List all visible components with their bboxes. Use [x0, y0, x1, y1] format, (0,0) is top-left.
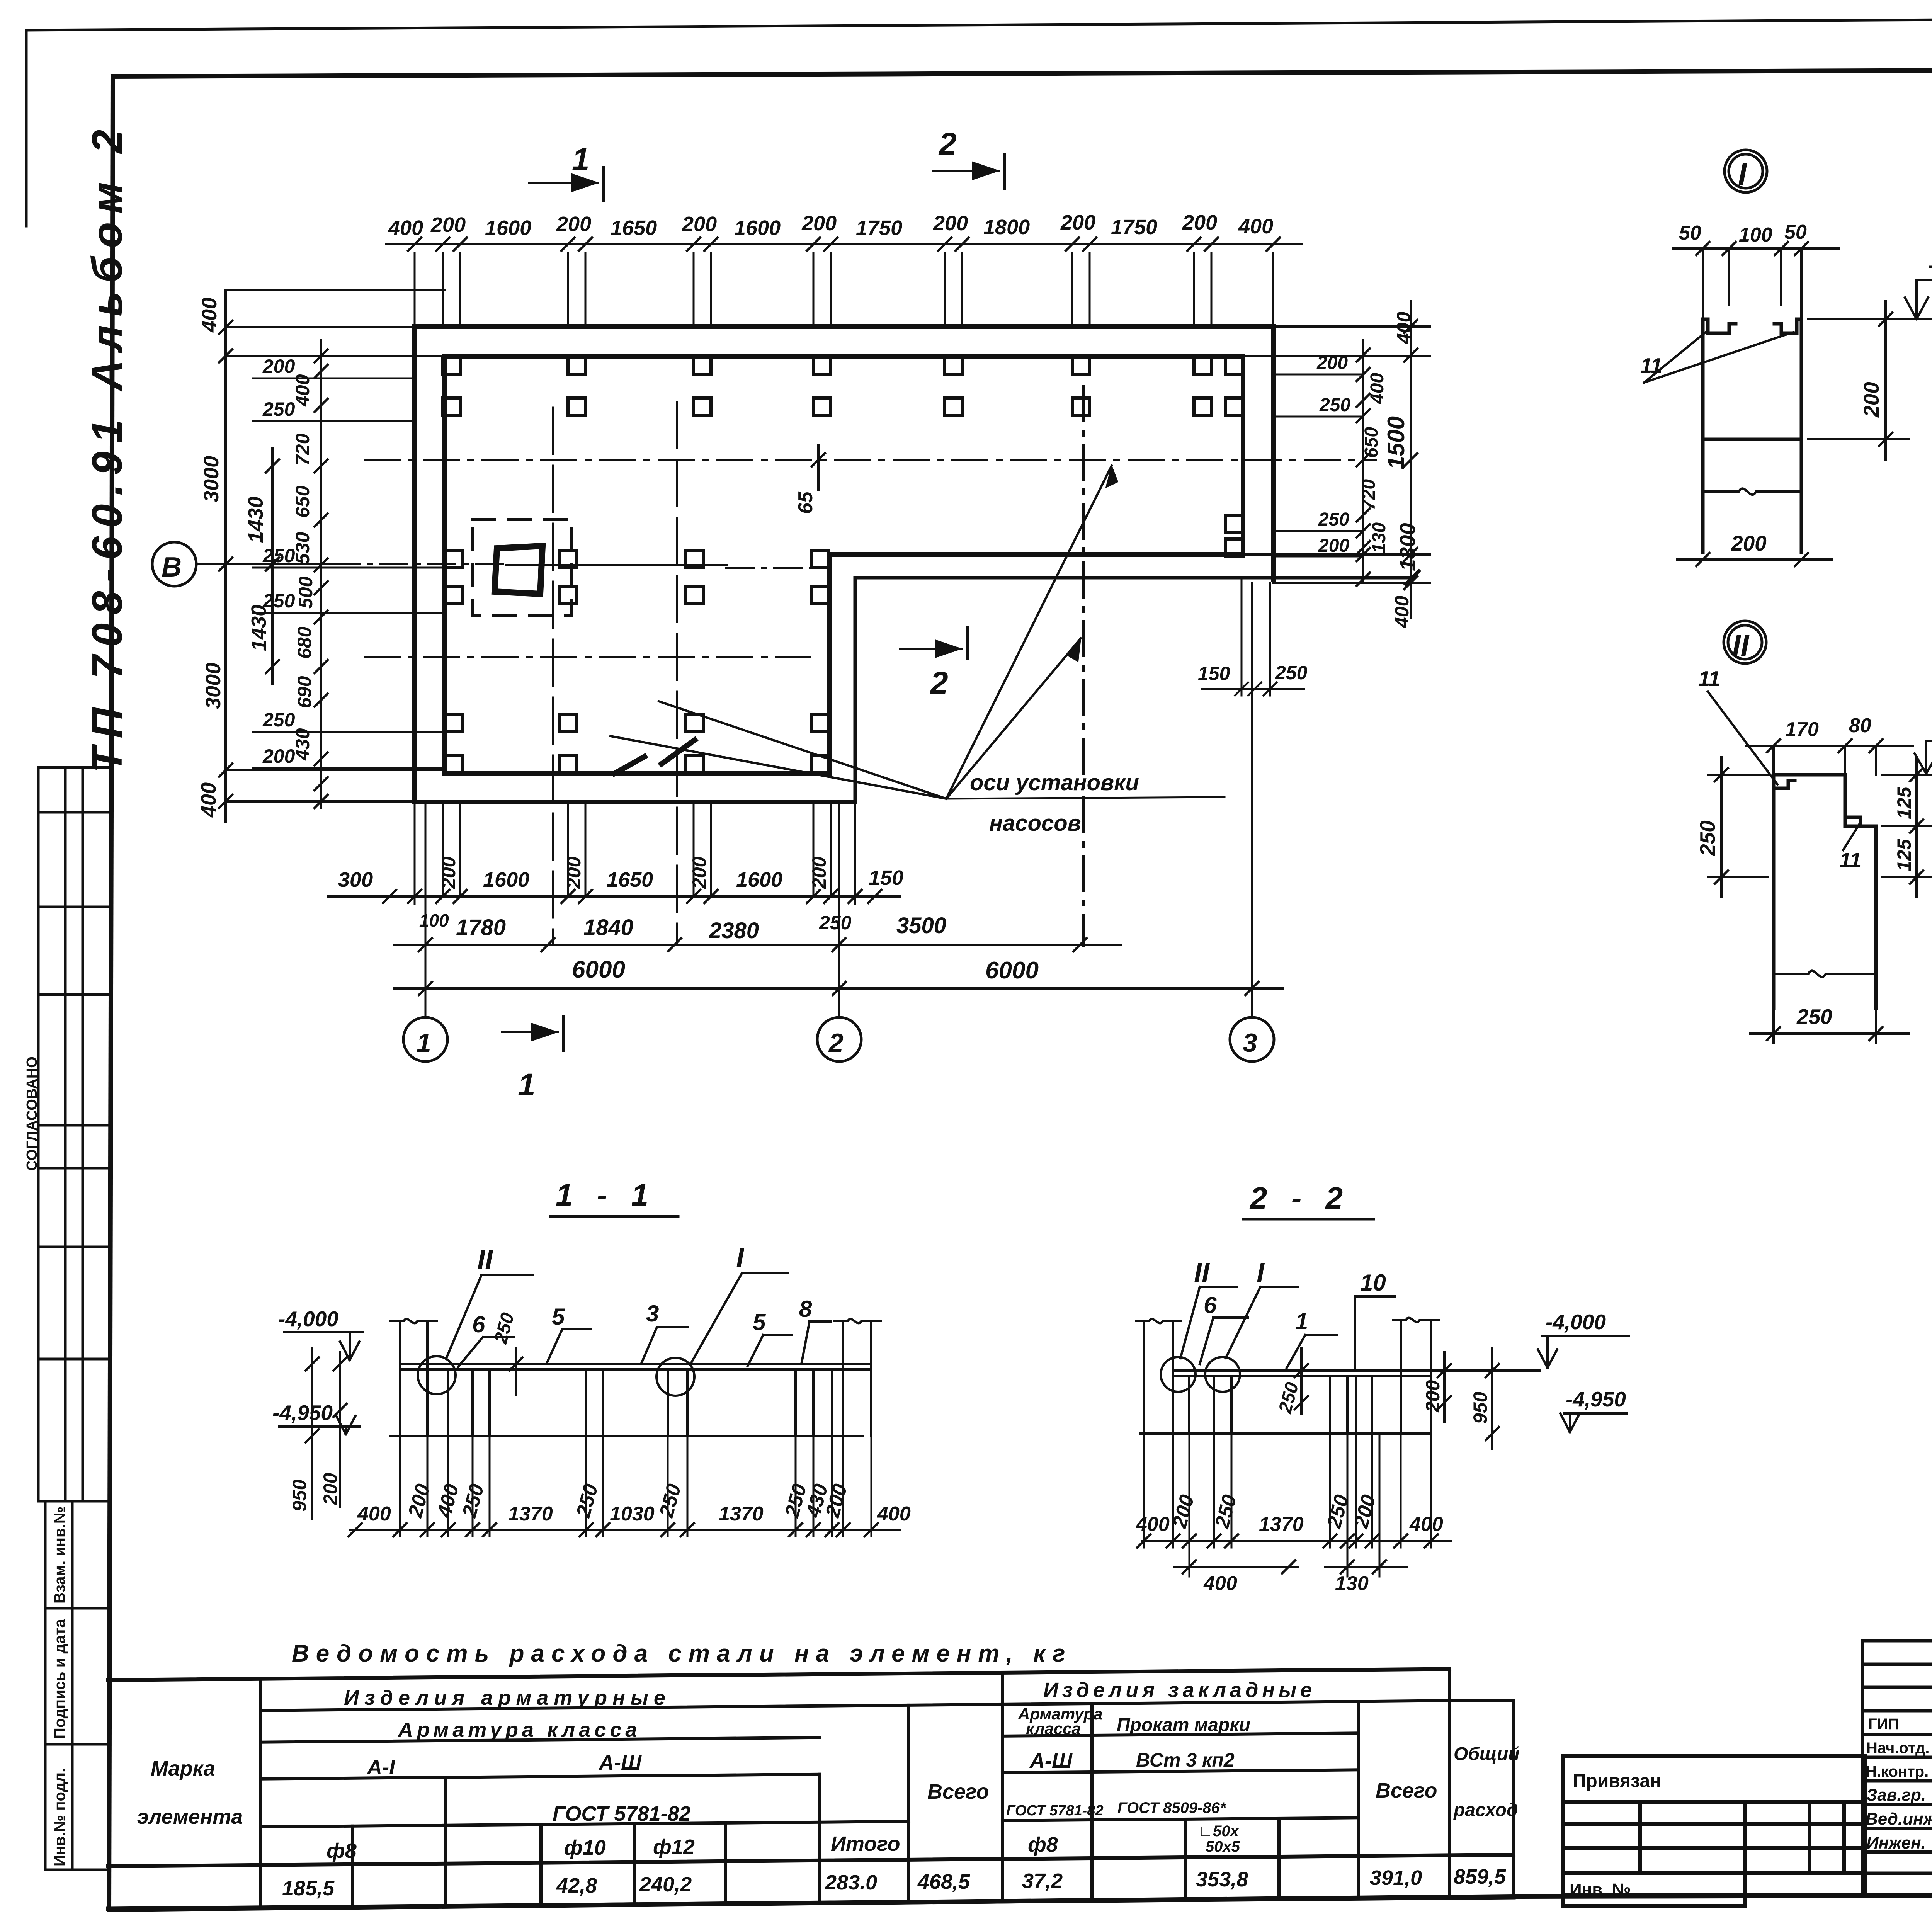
- svg-text:1 - 1: 1 - 1: [556, 1178, 656, 1212]
- svg-text:Нач.отд.: Нач.отд.: [1866, 1740, 1929, 1757]
- svg-text:250: 250: [572, 1481, 602, 1520]
- detail II leaders 11: [1708, 692, 1861, 850]
- right outer dim chain: [1243, 301, 1430, 618]
- column stubs top wall row1: [443, 357, 1243, 375]
- section marker 1 bottom: [502, 1016, 563, 1051]
- top dim witness lines: [415, 253, 1273, 327]
- svg-text:185,5: 185,5: [282, 1877, 335, 1900]
- svg-text:400: 400: [1367, 373, 1388, 404]
- svg-text:10: 10: [1360, 1270, 1386, 1296]
- svg-text:3000: 3000: [202, 663, 225, 709]
- pump axes baseline: [946, 797, 1225, 799]
- svg-text:ГОСТ 5781-82: ГОСТ 5781-82: [1006, 1803, 1104, 1819]
- top dim labels: [388, 211, 1273, 240]
- section 1-1 slab: [400, 1364, 871, 1369]
- pump axis vertical: [1082, 386, 1085, 946]
- grid axis circle 3: [1230, 1017, 1274, 1061]
- svg-text:1370: 1370: [508, 1503, 553, 1525]
- svg-text:200: 200: [262, 745, 295, 767]
- svg-text:50х5: 50х5: [1206, 1838, 1240, 1855]
- svg-text:400: 400: [1391, 595, 1413, 628]
- svg-text:250: 250: [655, 1481, 685, 1520]
- detail I right dim 200: [1808, 301, 1909, 460]
- svg-text:Взам. инв.№: Взам. инв.№: [51, 1507, 68, 1604]
- svg-text:200: 200: [682, 213, 717, 236]
- top dim ticks: [408, 238, 1280, 251]
- svg-text:Инв. №: Инв. №: [1570, 1880, 1631, 1899]
- svg-text:1: 1: [572, 142, 590, 177]
- pump axis horizontal 1: [365, 459, 1376, 461]
- svg-text:1030: 1030: [610, 1503, 655, 1525]
- svg-text:1650: 1650: [611, 216, 657, 240]
- svg-text:250: 250: [262, 590, 295, 612]
- svg-text:200: 200: [438, 856, 459, 889]
- svg-text:1300: 1300: [1395, 523, 1420, 571]
- column stubs left block middle rows: [446, 550, 828, 604]
- svg-text:200: 200: [1060, 211, 1095, 234]
- top dimension line: [386, 243, 1302, 245]
- svg-text:1600: 1600: [483, 868, 529, 891]
- svg-text:400: 400: [1393, 311, 1415, 344]
- signature table grid: [1862, 1641, 1932, 1895]
- svg-text:200: 200: [1731, 531, 1767, 555]
- svg-text:400: 400: [877, 1503, 911, 1525]
- pump axis horizontal 2: [365, 656, 810, 658]
- svg-text:I: I: [736, 1243, 745, 1274]
- section 1-1 left vertical dims: [306, 1349, 347, 1519]
- svg-text:Общий: Общий: [1454, 1744, 1520, 1764]
- section 1-1 leaders and labels: [446, 1273, 831, 1395]
- section 2-2 small dims: [1295, 1349, 1499, 1449]
- svg-text:391,0: 391,0: [1370, 1866, 1422, 1889]
- rotated 200 labels under plan: [438, 856, 830, 889]
- svg-text:1780: 1780: [456, 915, 506, 940]
- sheet outer edge top: [26, 15, 1932, 30]
- axis B circle: [152, 542, 196, 586]
- bottom dim line A: [328, 890, 900, 903]
- left 1430 dim chain: [266, 448, 279, 684]
- detail II level mark -4.000: [1893, 741, 1932, 775]
- svg-text:ф10: ф10: [564, 1836, 606, 1859]
- svg-text:Подпись и дата: Подпись и дата: [51, 1619, 68, 1739]
- svg-text:-4,000: -4,000: [278, 1307, 338, 1331]
- svg-text:Изделия арматурные: Изделия арматурные: [344, 1686, 671, 1709]
- svg-text:1500: 1500: [1383, 416, 1410, 469]
- svg-text:400: 400: [198, 298, 221, 333]
- svg-text:125: 125: [1893, 786, 1915, 819]
- svg-text:200: 200: [1350, 1492, 1380, 1531]
- svg-text:250: 250: [262, 398, 295, 420]
- section marker 2 top: [933, 155, 1005, 188]
- detail II circle marker: [1724, 621, 1766, 663]
- pump mark dashes: [662, 740, 695, 764]
- svg-text:Ведомость расхода стали: Ведомость расхода стали на элемент, кг: [292, 1640, 1072, 1667]
- svg-text:6: 6: [1204, 1292, 1217, 1318]
- svg-text:-4,950: -4,950: [1566, 1387, 1626, 1411]
- svg-text:1430: 1430: [244, 497, 267, 543]
- pump axes leader fan: [611, 466, 1118, 799]
- svg-text:250: 250: [1696, 820, 1719, 856]
- section 2-2 bottom dims: [1137, 1534, 1451, 1548]
- svg-text:11: 11: [1839, 848, 1861, 872]
- svg-text:400: 400: [357, 1503, 391, 1525]
- svg-text:42,8: 42,8: [556, 1874, 597, 1897]
- section 1-1 walls: [391, 1319, 881, 1436]
- svg-text:400: 400: [197, 782, 220, 818]
- svg-text:250: 250: [1318, 509, 1349, 530]
- svg-text:250: 250: [1323, 1492, 1353, 1531]
- section 2-2 floor line: [1140, 1432, 1431, 1435]
- svg-text:37,2: 37,2: [1022, 1869, 1063, 1893]
- svg-text:1750: 1750: [1111, 216, 1157, 239]
- svg-text:650: 650: [292, 485, 313, 518]
- svg-text:100: 100: [1739, 224, 1772, 246]
- svg-text:Инв.№ подл.: Инв.№ подл.: [51, 1768, 68, 1866]
- detail I leader 11: [1644, 330, 1793, 383]
- svg-text:200: 200: [689, 856, 710, 889]
- svg-text:I: I: [1738, 157, 1747, 191]
- bottom dim line C: [394, 982, 1283, 995]
- svg-text:1370: 1370: [1259, 1513, 1304, 1536]
- svg-text:Изделия закладные: Изделия закладные: [1043, 1679, 1316, 1702]
- svg-text:расход: расход: [1453, 1800, 1518, 1820]
- svg-text:класса: класса: [1026, 1719, 1081, 1738]
- svg-text:650: 650: [1361, 427, 1382, 458]
- svg-text:6: 6: [472, 1311, 485, 1337]
- detail II right dims 125 125: [1882, 757, 1932, 896]
- svg-text:8: 8: [799, 1296, 812, 1322]
- section 2-2 witness lines down: [1144, 1434, 1431, 1577]
- svg-text:720: 720: [292, 433, 313, 466]
- column stubs left block bottom rows: [446, 714, 828, 773]
- svg-text:Прокат марки: Прокат марки: [1117, 1715, 1250, 1735]
- steel table grid: [108, 1669, 1514, 1909]
- hatch opening dashed outline: [473, 519, 572, 615]
- svg-text:Инжен.: Инжен.: [1866, 1833, 1926, 1852]
- left small dim chain: [315, 340, 328, 808]
- grid axis verticals to circles: [425, 583, 1252, 1017]
- svg-text:2: 2: [930, 665, 948, 701]
- svg-text:400: 400: [388, 216, 423, 240]
- section 1-1 left level marks: [279, 1332, 363, 1434]
- section 2-2 walls: [1136, 1318, 1439, 1434]
- column stubs right wall lower: [1226, 515, 1243, 556]
- approval strip boxes (согласовано): [38, 767, 110, 1501]
- svg-text:элемента: элемента: [137, 1805, 243, 1828]
- svg-text:468,5: 468,5: [917, 1870, 970, 1893]
- section marker 2 in pit: [900, 628, 967, 659]
- right stub leader dims: [1276, 374, 1363, 556]
- svg-text:3: 3: [1243, 1028, 1257, 1058]
- left outer dim chain: [226, 290, 444, 822]
- sheet outer edge left: [25, 30, 28, 226]
- hatch opening thick square: [495, 546, 543, 594]
- svg-text:А-Ш: А-Ш: [598, 1751, 642, 1774]
- svg-text:ГОСТ 8509-86*: ГОСТ 8509-86*: [1117, 1799, 1227, 1816]
- svg-text:СОГЛАСОВАНО: СОГЛАСОВАНО: [24, 1056, 40, 1171]
- svg-text:-4,000: -4,000: [1546, 1310, 1606, 1334]
- right dim chain inner: [1357, 340, 1370, 586]
- svg-text:250: 250: [1211, 1492, 1241, 1531]
- detail II top dim 170 80: [1747, 739, 1913, 775]
- detail II stepped wall section: [1774, 775, 1876, 1009]
- svg-text:200: 200: [563, 856, 585, 889]
- section 1-1 detail circles: [418, 1356, 456, 1394]
- svg-text:А-Ш: А-Ш: [1029, 1749, 1073, 1772]
- svg-text:1: 1: [417, 1028, 431, 1058]
- svg-text:200: 200: [1182, 211, 1217, 234]
- svg-text:250: 250: [490, 1310, 518, 1346]
- svg-text:оси установки: оси установки: [970, 770, 1139, 795]
- svg-text:ф8: ф8: [1028, 1833, 1058, 1856]
- svg-text:Вед.инж.: Вед.инж.: [1866, 1810, 1932, 1828]
- svg-text:А-I: А-I: [366, 1756, 395, 1779]
- bottom-left frame label strip: [45, 1501, 109, 1870]
- pit outline: [855, 571, 1419, 802]
- svg-text:680: 680: [294, 626, 315, 659]
- svg-text:3: 3: [646, 1301, 659, 1327]
- svg-text:50: 50: [1679, 222, 1701, 244]
- svg-text:насосов: насосов: [989, 811, 1081, 836]
- svg-text:ВСт 3 кп2: ВСт 3 кп2: [1136, 1749, 1235, 1771]
- svg-text:200: 200: [933, 212, 968, 235]
- svg-text:1: 1: [518, 1067, 536, 1102]
- svg-text:2: 2: [938, 126, 957, 162]
- svg-text:∟50х: ∟50х: [1198, 1823, 1240, 1840]
- signature labels: [1866, 1716, 1929, 1780]
- svg-text:250: 250: [1275, 1380, 1303, 1415]
- svg-text:1800: 1800: [983, 216, 1030, 239]
- svg-text:200: 200: [801, 212, 837, 235]
- svg-text:Зав.гр.: Зав.гр.: [1866, 1786, 1926, 1804]
- svg-text:65: 65: [794, 491, 817, 514]
- svg-text:ТП 708-60.91 Альбом 2: ТП 708-60.91 Альбом 2: [83, 121, 131, 773]
- svg-text:150: 150: [869, 866, 903, 889]
- detail I top dim line 50 100 50: [1673, 242, 1839, 321]
- svg-text:1370: 1370: [719, 1503, 764, 1525]
- detail I bottom dim 200: [1677, 553, 1832, 566]
- svg-text:250: 250: [262, 545, 295, 566]
- svg-text:200: 200: [556, 213, 591, 236]
- column stubs top wall row2: [443, 398, 1243, 415]
- svg-text:283.0: 283.0: [825, 1871, 877, 1894]
- svg-text:300: 300: [338, 868, 373, 891]
- svg-text:2 - 2: 2 - 2: [1249, 1181, 1350, 1215]
- svg-text:-4,000: -4,000: [1928, 253, 1932, 277]
- right 150 250 dim: [1202, 579, 1304, 696]
- svg-text:Н.контр.: Н.контр.: [1866, 1763, 1929, 1780]
- svg-text:200: 200: [320, 1473, 341, 1505]
- svg-text:Привязан: Привязан: [1573, 1771, 1661, 1791]
- svg-text:400: 400: [1136, 1513, 1170, 1536]
- svg-text:ГИП: ГИП: [1868, 1716, 1899, 1733]
- svg-text:1650: 1650: [607, 868, 653, 891]
- privyazan block: [1563, 1756, 1865, 1906]
- detail II bottom dim 250: [1750, 1009, 1909, 1043]
- detail I level mark -4.000: [1818, 280, 1932, 319]
- svg-text:80: 80: [1849, 714, 1871, 737]
- svg-text:200: 200: [1422, 1380, 1444, 1413]
- grid axis circle 2: [817, 1017, 861, 1061]
- svg-text:50: 50: [1784, 221, 1807, 243]
- svg-text:400: 400: [1203, 1572, 1237, 1595]
- svg-text:ф8: ф8: [327, 1839, 357, 1862]
- detail I break squiggle: [1703, 488, 1801, 495]
- svg-text:5: 5: [552, 1304, 565, 1330]
- section 2-2 detail circles: [1161, 1357, 1196, 1392]
- section 2-2 right level marks: [1538, 1336, 1629, 1432]
- svg-text:150: 150: [1198, 663, 1230, 684]
- svg-text:ф12: ф12: [653, 1835, 695, 1859]
- svg-text:II: II: [477, 1245, 493, 1276]
- svg-text:1: 1: [1295, 1308, 1308, 1334]
- steel table texts: [137, 1679, 1520, 1900]
- svg-text:859,5: 859,5: [1454, 1865, 1506, 1888]
- svg-text:200: 200: [808, 856, 830, 889]
- svg-text:250: 250: [1319, 395, 1350, 415]
- section 1-1 floor line: [390, 1435, 862, 1437]
- svg-text:400: 400: [1409, 1513, 1443, 1536]
- svg-text:I: I: [1257, 1257, 1265, 1288]
- svg-text:250: 250: [1275, 662, 1308, 684]
- svg-text:1600: 1600: [485, 216, 531, 240]
- svg-text:II: II: [1194, 1257, 1210, 1288]
- svg-text:2: 2: [828, 1028, 844, 1058]
- grid axis circle 1: [403, 1017, 447, 1061]
- plan top wall outer: [415, 327, 1273, 802]
- section 2-2 leaders and labels: [1180, 1287, 1395, 1369]
- svg-text:170: 170: [1785, 718, 1819, 741]
- svg-text:3500: 3500: [896, 913, 946, 938]
- svg-text:353,8: 353,8: [1196, 1868, 1248, 1891]
- svg-text:1600: 1600: [736, 868, 782, 891]
- svg-text:400: 400: [1238, 215, 1273, 238]
- svg-text:5: 5: [753, 1309, 766, 1335]
- svg-text:200: 200: [1318, 536, 1349, 556]
- svg-text:950: 950: [1469, 1391, 1491, 1424]
- section 1-1 witness lines down: [400, 1436, 871, 1536]
- bottom witness pairs under plan: [415, 802, 855, 904]
- svg-text:6000: 6000: [572, 956, 625, 983]
- detail I circle marker: [1725, 150, 1767, 192]
- svg-text:-4,950: -4,950: [272, 1401, 333, 1425]
- svg-text:690: 690: [294, 676, 315, 708]
- section 1-1 bottom dim: [349, 1523, 900, 1536]
- svg-text:В: В: [162, 552, 182, 583]
- svg-text:Арматура класса: Арматура класса: [397, 1718, 641, 1742]
- svg-text:250: 250: [819, 912, 852, 934]
- section 2-2 slab: [1173, 1371, 1540, 1376]
- left stub leader dims: [253, 378, 446, 768]
- section marker 1 top: [529, 167, 604, 201]
- svg-text:11: 11: [1640, 354, 1662, 378]
- svg-text:200: 200: [404, 1481, 434, 1520]
- svg-text:250: 250: [1796, 1005, 1832, 1029]
- svg-text:11: 11: [1698, 667, 1720, 690]
- svg-text:130: 130: [1369, 522, 1389, 553]
- svg-text:200: 200: [262, 355, 295, 377]
- detail II left dim 250: [1708, 757, 1768, 896]
- svg-text:200: 200: [430, 213, 466, 236]
- svg-text:950: 950: [289, 1479, 310, 1512]
- svg-text:500: 500: [295, 576, 316, 609]
- svg-text:720: 720: [1359, 479, 1379, 510]
- svg-text:3000: 3000: [200, 456, 223, 502]
- svg-text:2380: 2380: [709, 918, 759, 943]
- tick 65 on pump axis: [817, 445, 820, 490]
- detail I wall section: [1703, 319, 1801, 553]
- detail II break squiggle: [1774, 971, 1876, 977]
- svg-text:1750: 1750: [856, 216, 902, 240]
- svg-text:100: 100: [419, 910, 449, 930]
- svg-text:6000: 6000: [985, 957, 1039, 984]
- svg-text:250: 250: [262, 709, 295, 731]
- svg-text:Итого: Итого: [831, 1832, 900, 1855]
- svg-text:Всего: Всего: [1376, 1779, 1437, 1802]
- svg-text:130: 130: [1335, 1572, 1369, 1595]
- svg-text:Всего: Всего: [927, 1780, 989, 1803]
- svg-text:Марка: Марка: [151, 1757, 215, 1780]
- svg-text:200: 200: [1859, 382, 1883, 418]
- axis B line: [196, 564, 829, 568]
- svg-text:ГОСТ 5781-82: ГОСТ 5781-82: [553, 1802, 691, 1825]
- svg-text:1600: 1600: [734, 216, 781, 240]
- svg-text:240,2: 240,2: [639, 1873, 692, 1896]
- bottom dim line B: [394, 938, 1121, 951]
- svg-text:II: II: [1732, 628, 1750, 662]
- svg-text:1840: 1840: [583, 915, 633, 940]
- svg-text:125: 125: [1893, 838, 1915, 871]
- interior column axis lines: [552, 408, 554, 945]
